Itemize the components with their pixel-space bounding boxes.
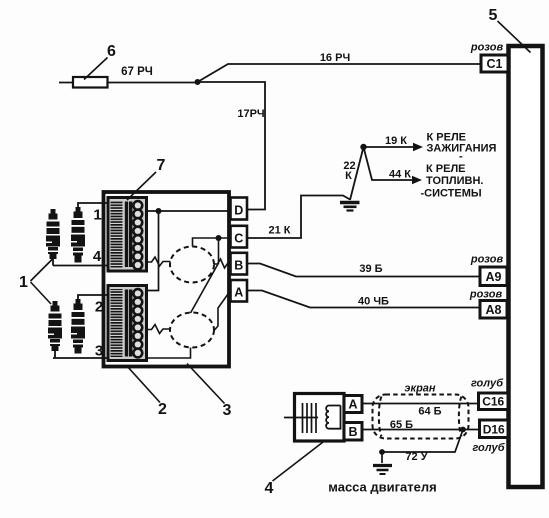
svg-text:К РЕЛЕ: К РЕЛЕ — [426, 163, 466, 175]
wire 65Б — [362, 429, 480, 431]
svg-text:голуб: голуб — [472, 442, 505, 454]
svg-text:6: 6 — [107, 43, 116, 60]
wire coil secondary bottom — [147, 325, 171, 334]
svg-text:розов: розов — [469, 289, 503, 301]
svg-text:B: B — [348, 425, 357, 439]
svg-text:-: - — [459, 151, 463, 163]
label 6 leader — [84, 58, 108, 80]
connector pin C — [231, 226, 248, 248]
junction dot D wire — [156, 208, 162, 214]
coil block top (item 7) — [108, 198, 147, 272]
svg-text:ТОПЛИВН.: ТОПЛИВН. — [426, 175, 483, 187]
wire 64Б — [362, 403, 479, 405]
svg-text:65 Б: 65 Б — [390, 419, 413, 431]
wire into C — [193, 238, 231, 247]
wire D internal — [147, 211, 231, 291]
pin A8 — [480, 301, 507, 319]
svg-text:1: 1 — [19, 274, 28, 291]
connector ellipse top (dashed) — [170, 247, 214, 283]
junction dot ground wire — [379, 449, 385, 455]
svg-text:B: B — [234, 259, 243, 273]
sensor coil — [326, 406, 340, 429]
svg-text:21 К: 21 К — [268, 225, 290, 237]
label 1 leaders — [31, 258, 55, 305]
svg-text:19 К: 19 К — [385, 135, 407, 147]
wire C to lower ellipse — [191, 238, 219, 313]
junction dot C wire — [216, 235, 222, 241]
svg-text:розов: розов — [470, 254, 504, 266]
label 7 leader — [127, 172, 156, 200]
module 3 body — [104, 192, 230, 367]
svg-text:4: 4 — [93, 248, 102, 265]
svg-text:A9: A9 — [486, 270, 502, 284]
svg-text:67 РЧ: 67 РЧ — [121, 66, 153, 78]
svg-text:экран: экран — [404, 383, 435, 395]
sensor pin B — [344, 423, 362, 441]
connector pin A — [231, 280, 248, 302]
ground (22К) — [340, 203, 360, 211]
wire 22К — [350, 147, 364, 200]
wire 21К — [248, 196, 351, 239]
svg-text:16 РЧ: 16 РЧ — [320, 52, 350, 64]
fuse 6 — [73, 77, 108, 88]
junction dot shield — [460, 427, 466, 433]
pin C16 — [479, 393, 509, 410]
spark plug cyl4 — [46, 209, 60, 259]
junction dot main wire — [195, 79, 201, 85]
pin D16 — [480, 420, 509, 438]
wire plug3 HT lead — [53, 350, 109, 358]
wire plug2 HT lead — [78, 295, 109, 299]
pin A9 — [480, 267, 507, 286]
svg-text:5: 5 — [489, 7, 498, 24]
svg-text:A: A — [234, 286, 243, 300]
svg-text:39 Б: 39 Б — [359, 263, 382, 275]
svg-text:3: 3 — [223, 402, 232, 419]
shield (экран) dashed — [373, 395, 469, 439]
wire 39Б — [248, 264, 481, 277]
svg-text:D: D — [234, 204, 243, 218]
svg-text:C: C — [234, 232, 243, 246]
wire into A — [214, 291, 231, 331]
wire 40ЧБ — [248, 291, 481, 308]
connector pin B — [231, 253, 248, 275]
svg-text:7: 7 — [157, 157, 166, 174]
svg-text:D16: D16 — [483, 423, 505, 437]
svg-text:40 ЧБ: 40 ЧБ — [358, 296, 389, 308]
wire 44К with arrow — [364, 147, 414, 180]
svg-text:1: 1 — [93, 207, 101, 224]
svg-text:-СИСТЕМЫ: -СИСТЕМЫ — [421, 188, 482, 200]
coil block bottom (item 2) — [108, 286, 147, 361]
sensor 4 body — [295, 394, 345, 442]
label 4 leader — [273, 441, 326, 482]
wire coil secondary top — [147, 257, 171, 266]
label 3 leader — [187, 364, 225, 404]
label 5 leader — [498, 21, 531, 53]
wire into B — [214, 259, 231, 268]
svg-text:A8: A8 — [486, 303, 502, 317]
wire plug4 HT lead — [53, 256, 109, 266]
svg-text:2: 2 — [95, 299, 103, 316]
sensor core lines — [284, 403, 318, 433]
svg-text:розов: розов — [470, 42, 504, 54]
junction dot relays — [360, 144, 366, 150]
label 2 leader — [127, 366, 160, 403]
svg-text:4: 4 — [265, 480, 274, 497]
svg-text:A: A — [348, 398, 357, 412]
wire 17РЧ — [198, 82, 266, 210]
wire plug1 HT lead — [78, 203, 109, 207]
connector pin D — [231, 198, 248, 220]
spark plug cyl2 — [71, 299, 85, 354]
svg-text:К: К — [345, 170, 352, 182]
svg-text:64 Б: 64 Б — [418, 406, 441, 418]
spark plug cyl1 — [71, 207, 85, 263]
ECU block 5 — [509, 46, 543, 487]
svg-text:44 К: 44 К — [389, 169, 411, 181]
svg-text:72 У: 72 У — [405, 451, 427, 463]
spark plug cyl3 — [48, 301, 62, 351]
connector ellipse bottom (dashed) — [170, 313, 214, 348]
pin C1 — [481, 55, 508, 72]
ground (engine mass) — [373, 466, 392, 475]
svg-text:17РЧ: 17РЧ — [237, 108, 264, 120]
svg-text:C1: C1 — [487, 57, 503, 71]
svg-text:C16: C16 — [482, 395, 504, 409]
wire 19К with arrow — [364, 146, 415, 148]
svg-text:масса двигателя: масса двигателя — [328, 480, 436, 495]
svg-text:2: 2 — [158, 401, 167, 418]
wire 67РЧ — [59, 82, 198, 84]
wire 72У — [382, 430, 463, 464]
wire ellipse bottom to coil — [146, 348, 191, 359]
svg-text:голуб: голуб — [471, 378, 504, 390]
svg-text:3: 3 — [95, 343, 103, 360]
sensor pin A — [344, 396, 362, 413]
wire 16РЧ — [198, 64, 482, 82]
